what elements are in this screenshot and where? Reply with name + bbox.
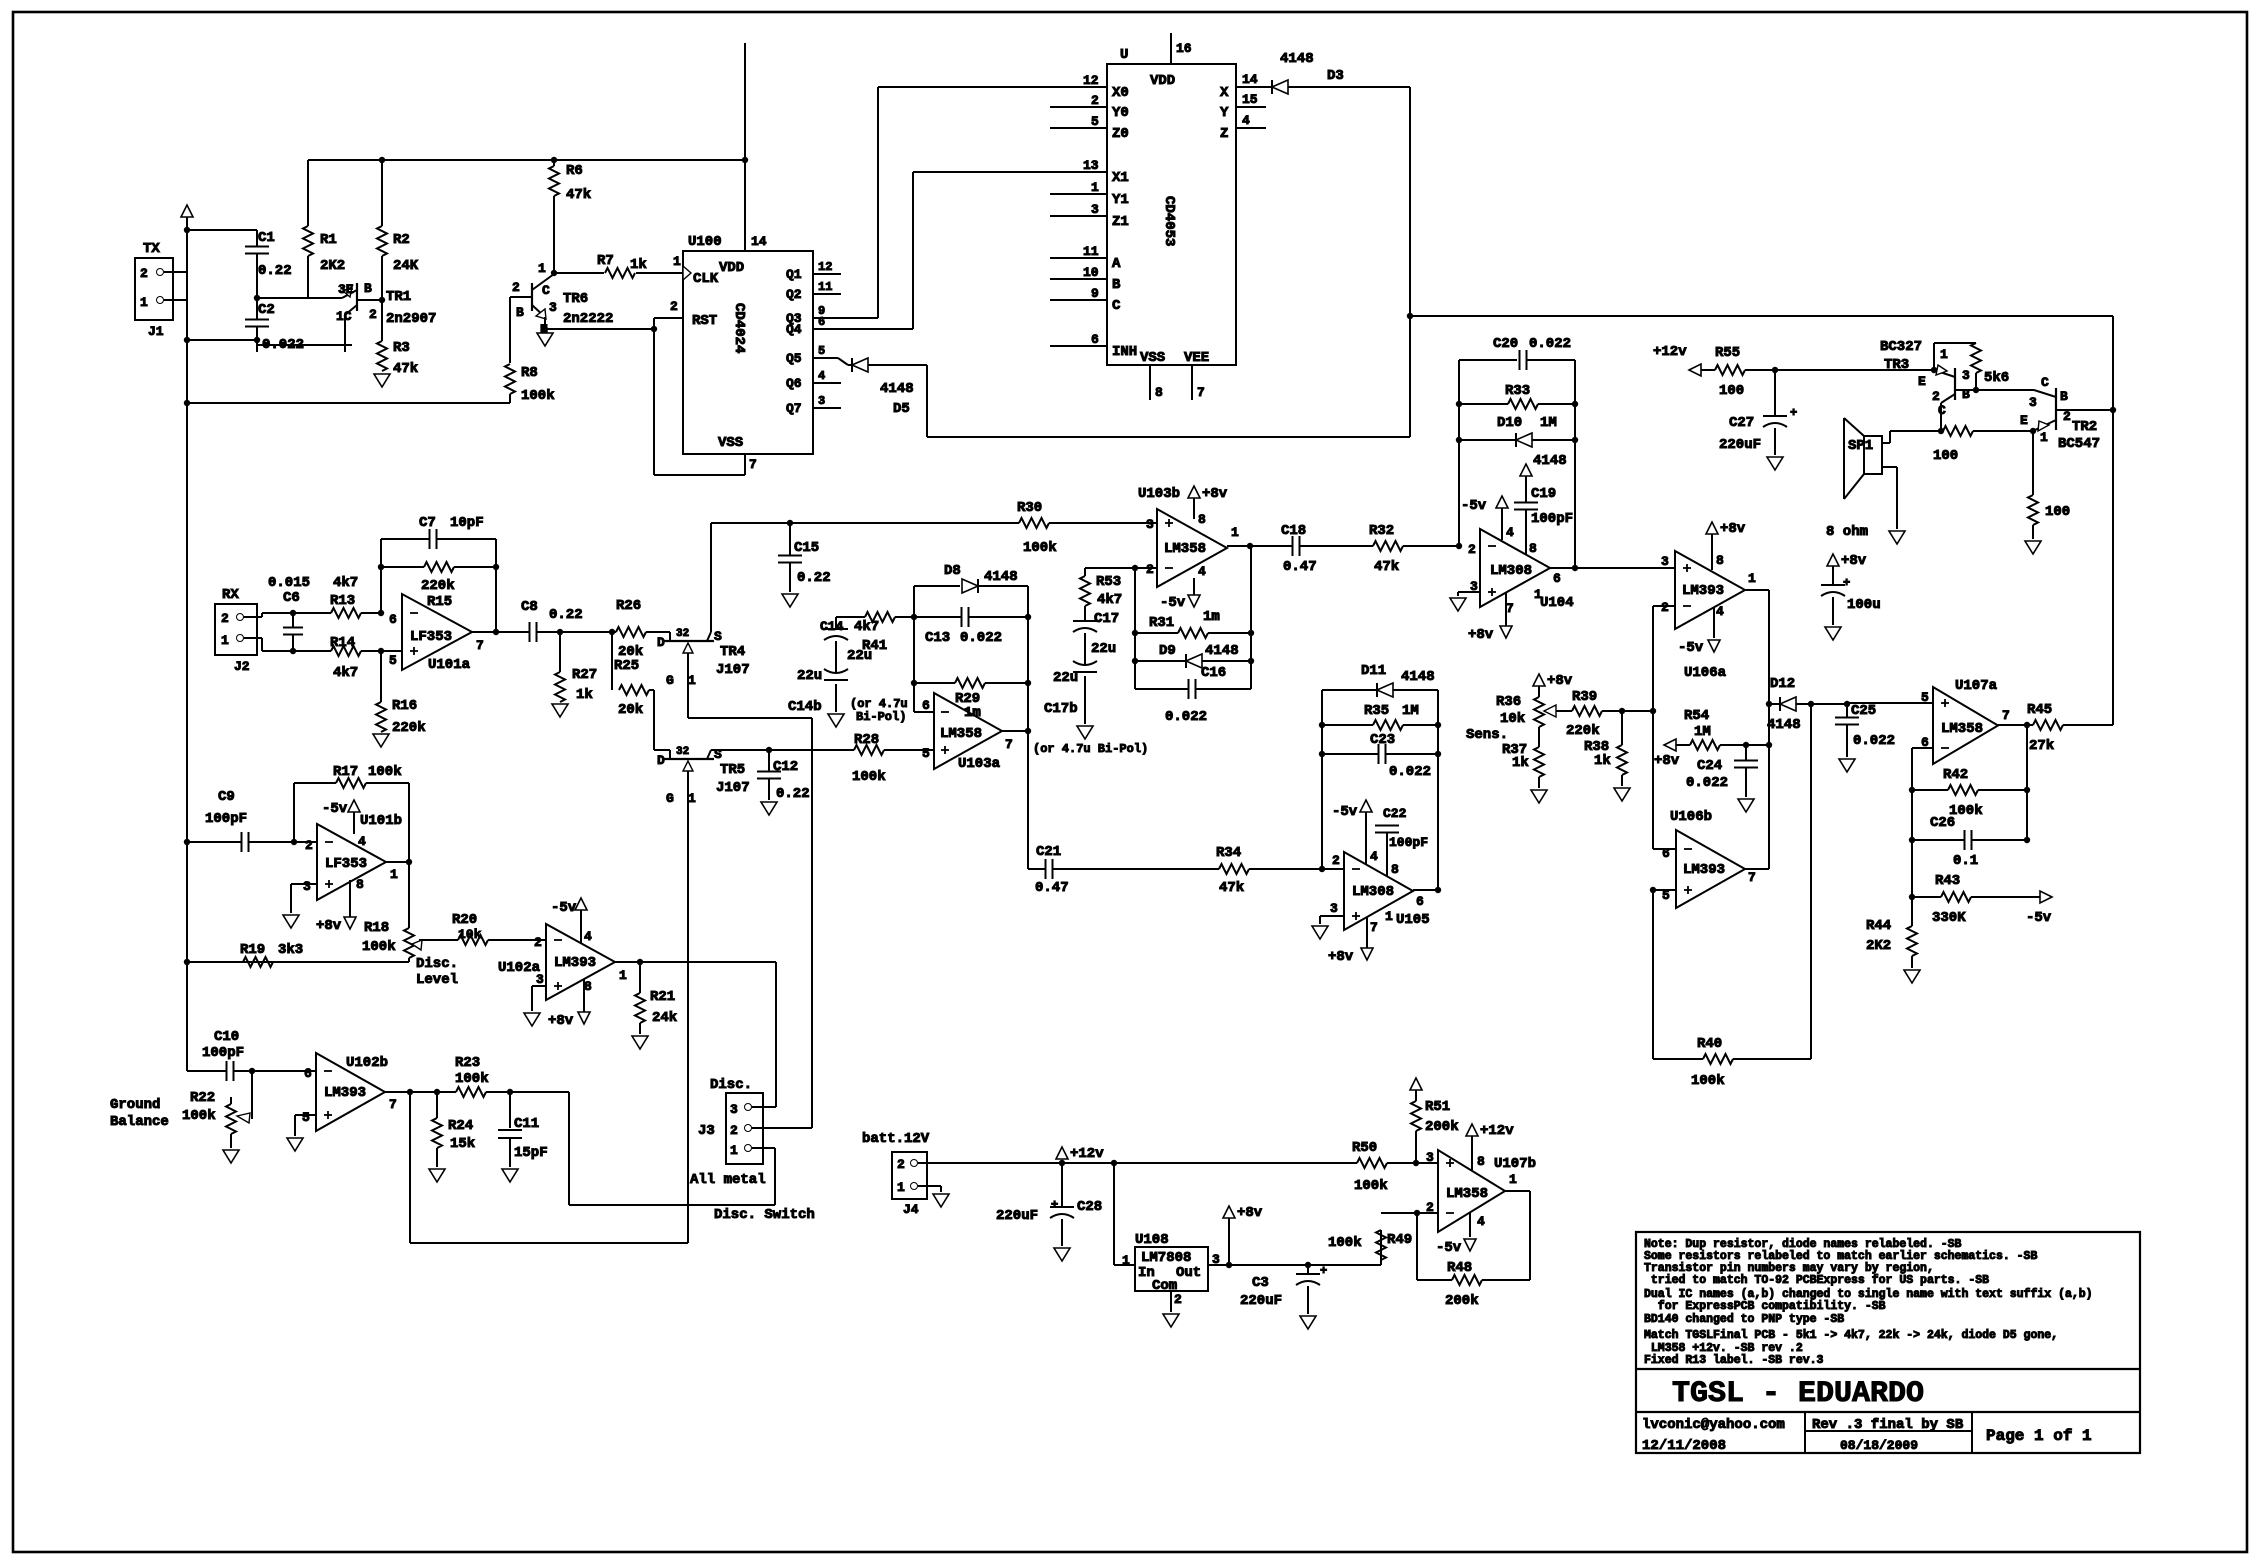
svg-text:3: 3 — [818, 394, 825, 408]
svg-text:1M: 1M — [1402, 703, 1419, 719]
svg-text:R55: R55 — [1715, 345, 1740, 361]
svg-text:4: 4 — [584, 929, 592, 944]
svg-text:Sens.: Sens. — [1466, 727, 1508, 743]
svg-text:R26: R26 — [616, 598, 641, 614]
svg-text:1: 1 — [688, 791, 696, 806]
svg-text:+: + — [1790, 406, 1797, 420]
svg-text:1: 1 — [1748, 571, 1756, 586]
svg-text:200k: 200k — [1445, 1293, 1479, 1309]
svg-text:2: 2 — [1661, 600, 1669, 615]
svg-text:CLK: CLK — [693, 271, 719, 287]
svg-text:20k: 20k — [618, 702, 643, 718]
svg-text:2: 2 — [1468, 542, 1476, 557]
svg-text:5k6: 5k6 — [1984, 370, 2009, 386]
svg-text:J2: J2 — [234, 659, 250, 674]
svg-text:C12: C12 — [773, 759, 798, 775]
svg-text:+12v: +12v — [1480, 1123, 1514, 1139]
svg-text:1: 1 — [1231, 525, 1239, 540]
svg-text:100k: 100k — [1023, 540, 1057, 556]
svg-text:+8v: +8v — [1547, 673, 1573, 689]
svg-text:11: 11 — [818, 280, 832, 294]
svg-text:8: 8 — [1155, 385, 1163, 400]
svg-text:27k: 27k — [2029, 738, 2054, 754]
svg-text:Page 1 of 1: Page 1 of 1 — [1986, 1427, 2092, 1445]
svg-text:1: 1 — [688, 673, 696, 688]
svg-text:3E: 3E — [338, 282, 354, 297]
svg-text:47k: 47k — [1374, 559, 1399, 575]
svg-text:0.022: 0.022 — [1165, 709, 1207, 725]
svg-text:4148: 4148 — [1767, 717, 1801, 733]
svg-text:R19: R19 — [240, 942, 265, 958]
svg-text:C19: C19 — [1531, 486, 1556, 502]
svg-text:8: 8 — [584, 979, 592, 994]
svg-text:LM393: LM393 — [1683, 862, 1725, 878]
svg-text:C22: C22 — [1383, 806, 1407, 821]
svg-text:LM358: LM358 — [1164, 541, 1206, 557]
svg-text:LM393: LM393 — [1682, 583, 1724, 599]
svg-text:SP1: SP1 — [1848, 438, 1873, 454]
svg-text:+8v: +8v — [316, 918, 342, 934]
svg-text:4: 4 — [358, 834, 366, 849]
svg-text:U101a: U101a — [428, 657, 471, 673]
svg-text:32: 32 — [676, 746, 689, 758]
svg-text:Balance: Balance — [110, 1114, 169, 1130]
svg-text:J4: J4 — [903, 1202, 919, 1217]
svg-text:lvconic@yahoo.com: lvconic@yahoo.com — [1642, 1417, 1785, 1433]
svg-text:1: 1 — [1385, 909, 1393, 924]
svg-text:+8v: +8v — [1237, 1205, 1263, 1221]
svg-text:Disc.: Disc. — [416, 956, 458, 972]
svg-text:-5v: -5v — [1678, 640, 1704, 656]
svg-text:15: 15 — [1242, 92, 1258, 107]
svg-text:100k: 100k — [1328, 1235, 1362, 1251]
svg-text:Q5: Q5 — [786, 351, 802, 366]
svg-text:0.47: 0.47 — [1035, 880, 1069, 896]
svg-text:220k: 220k — [1566, 723, 1600, 739]
svg-text:1: 1 — [2040, 430, 2048, 445]
svg-text:1: 1 — [1091, 180, 1099, 195]
svg-text:0.22: 0.22 — [258, 263, 292, 279]
svg-text:C14b: C14b — [788, 699, 822, 715]
svg-text:+8v: +8v — [1720, 521, 1746, 537]
svg-text:C: C — [2041, 375, 2049, 390]
svg-text:100k: 100k — [362, 939, 396, 955]
svg-text:D: D — [657, 753, 665, 768]
svg-text:4148: 4148 — [880, 381, 914, 397]
svg-text:2: 2 — [670, 299, 678, 314]
svg-text:12: 12 — [1083, 73, 1099, 88]
svg-text:1: 1 — [538, 261, 546, 276]
svg-text:INH: INH — [1112, 344, 1137, 360]
svg-text:Q4: Q4 — [786, 322, 802, 337]
svg-text:LM308: LM308 — [1490, 563, 1532, 579]
svg-text:3: 3 — [1962, 368, 1970, 383]
svg-text:1k: 1k — [1512, 755, 1529, 771]
svg-text:C: C — [1112, 298, 1121, 314]
svg-text:R28: R28 — [854, 732, 879, 748]
svg-text:C7: C7 — [419, 515, 436, 531]
svg-text:1k: 1k — [630, 257, 647, 273]
svg-text:Q2: Q2 — [786, 287, 802, 302]
svg-text:C14: C14 — [820, 619, 844, 634]
svg-text:7: 7 — [389, 1097, 397, 1112]
svg-text:D3: D3 — [1327, 68, 1344, 84]
svg-text:100: 100 — [2045, 504, 2070, 520]
svg-text:R23: R23 — [455, 1055, 480, 1071]
svg-text:Z0: Z0 — [1112, 126, 1129, 142]
svg-text:2: 2 — [2063, 409, 2071, 424]
svg-text:1C: 1C — [336, 309, 352, 324]
svg-text:Y1: Y1 — [1112, 192, 1129, 208]
svg-text:U: U — [1120, 47, 1128, 63]
svg-text:R53: R53 — [1096, 574, 1121, 590]
svg-text:+: + — [1843, 576, 1850, 590]
svg-text:4: 4 — [1506, 525, 1514, 540]
svg-text:1: 1 — [1122, 1253, 1130, 1268]
svg-text:+8v: +8v — [548, 1013, 574, 1029]
svg-text:-5v: -5v — [1332, 804, 1358, 820]
svg-text:6: 6 — [1553, 571, 1561, 586]
svg-text:100pF: 100pF — [205, 811, 247, 827]
svg-text:J3: J3 — [698, 1123, 715, 1139]
svg-text:U107a: U107a — [1955, 678, 1998, 694]
svg-text:U101b: U101b — [360, 813, 402, 829]
svg-text:R22: R22 — [190, 1090, 215, 1106]
svg-text:U107b: U107b — [1494, 1156, 1536, 1172]
svg-text:U106b: U106b — [1670, 809, 1712, 825]
svg-text:0.22: 0.22 — [549, 607, 583, 623]
svg-text:1m: 1m — [964, 705, 981, 721]
svg-text:7: 7 — [1197, 385, 1205, 400]
svg-text:220uF: 220uF — [1719, 437, 1761, 453]
svg-text:U102a: U102a — [498, 960, 541, 976]
svg-text:0.022: 0.022 — [1389, 764, 1431, 780]
svg-text:LM393: LM393 — [324, 1085, 366, 1101]
svg-text:C11: C11 — [514, 1116, 539, 1132]
svg-text:2: 2 — [897, 1157, 905, 1172]
svg-text:3: 3 — [1426, 1150, 1434, 1165]
svg-text:2: 2 — [1091, 93, 1099, 108]
svg-text:C25: C25 — [1851, 703, 1876, 719]
svg-text:R31: R31 — [1149, 615, 1174, 631]
svg-text:100k: 100k — [1691, 1073, 1725, 1089]
svg-text:J107: J107 — [716, 780, 750, 796]
svg-text:4: 4 — [1370, 849, 1378, 864]
svg-text:4148: 4148 — [1533, 453, 1567, 469]
svg-text:22u: 22u — [797, 668, 822, 684]
svg-text:R15: R15 — [427, 594, 452, 610]
svg-text:C9: C9 — [218, 789, 235, 805]
svg-text:8 ohm: 8 ohm — [1826, 524, 1868, 540]
svg-text:Out: Out — [1176, 1265, 1201, 1281]
svg-text:0.1: 0.1 — [1953, 853, 1978, 869]
svg-text:R34: R34 — [1216, 845, 1241, 861]
svg-text:0.22: 0.22 — [797, 570, 831, 586]
svg-text:7: 7 — [1370, 920, 1378, 935]
svg-text:1: 1 — [1509, 1172, 1517, 1187]
svg-text:LM358: LM358 — [1941, 721, 1983, 737]
svg-text:VDD: VDD — [719, 260, 744, 276]
svg-text:CD4053: CD4053 — [1161, 196, 1177, 246]
svg-text:Match TGSLFinal PCB - 5k1 -> 4: Match TGSLFinal PCB - 5k1 -> 4k7, 22k ->… — [1644, 1329, 2058, 1342]
svg-text:5: 5 — [922, 746, 930, 761]
svg-text:VDD: VDD — [1150, 73, 1175, 89]
svg-text:(or 4.7u: (or 4.7u — [850, 697, 908, 711]
svg-text:7: 7 — [2002, 708, 2010, 723]
svg-text:All metal: All metal — [690, 1172, 766, 1188]
svg-text:TR4: TR4 — [720, 644, 745, 660]
svg-text:R20: R20 — [452, 912, 477, 928]
svg-text:R49: R49 — [1387, 1232, 1412, 1248]
svg-text:B: B — [1112, 277, 1121, 293]
svg-text:-5v: -5v — [2026, 910, 2052, 926]
svg-text:R6: R6 — [566, 163, 583, 179]
svg-text:U105: U105 — [1396, 912, 1430, 928]
svg-text:08/18/2009: 08/18/2009 — [1840, 1438, 1918, 1453]
svg-text:1: 1 — [140, 295, 148, 310]
svg-text:C8: C8 — [521, 599, 538, 615]
svg-text:-5v: -5v — [1461, 498, 1487, 514]
svg-text:J107: J107 — [716, 662, 750, 678]
svg-text:U100: U100 — [688, 234, 722, 250]
svg-text:B: B — [2060, 389, 2068, 404]
svg-text:C13: C13 — [925, 630, 950, 646]
svg-text:B: B — [364, 281, 372, 296]
svg-text:14: 14 — [751, 234, 767, 249]
svg-text:TR3: TR3 — [1884, 357, 1909, 373]
svg-text:RST: RST — [692, 313, 717, 329]
svg-text:Y: Y — [1220, 105, 1229, 121]
svg-text:LM358: LM358 — [1446, 1186, 1488, 1202]
svg-text:-5v: -5v — [1160, 595, 1186, 611]
svg-text:1: 1 — [619, 968, 627, 983]
svg-text:1m: 1m — [1203, 609, 1220, 625]
svg-text:TR1: TR1 — [386, 289, 411, 305]
svg-text:4148: 4148 — [1280, 51, 1314, 67]
svg-text:7: 7 — [1506, 601, 1514, 616]
svg-text:5: 5 — [818, 344, 825, 358]
svg-text:100pF: 100pF — [202, 1045, 244, 1061]
svg-text:100pF: 100pF — [1531, 511, 1573, 527]
svg-text:4: 4 — [1477, 1214, 1485, 1229]
svg-text:C15: C15 — [794, 540, 819, 556]
svg-text:2: 2 — [305, 838, 313, 853]
svg-text:S: S — [714, 747, 722, 762]
svg-text:24k: 24k — [652, 1010, 677, 1026]
svg-text:D: D — [657, 635, 665, 650]
svg-text:330K: 330K — [1932, 910, 1966, 926]
svg-text:220uF: 220uF — [996, 1208, 1038, 1224]
svg-text:1: 1 — [1940, 347, 1948, 362]
svg-text:R17: R17 — [333, 764, 358, 780]
svg-text:LF353: LF353 — [410, 629, 452, 645]
svg-text:VEE: VEE — [1184, 350, 1209, 366]
svg-text:1: 1 — [730, 1143, 738, 1158]
svg-text:U103b: U103b — [1138, 486, 1180, 502]
svg-text:Disc. Switch: Disc. Switch — [714, 1207, 815, 1223]
svg-text:R51: R51 — [1425, 1099, 1450, 1115]
svg-text:6: 6 — [304, 1066, 312, 1081]
svg-text:LM308: LM308 — [1352, 884, 1394, 900]
svg-text:U102b: U102b — [346, 1055, 388, 1071]
svg-text:C1: C1 — [258, 230, 275, 246]
svg-text:R45: R45 — [2027, 702, 2052, 718]
svg-text:C28: C28 — [1077, 1199, 1102, 1215]
svg-text:R54: R54 — [1684, 708, 1709, 724]
svg-text:5: 5 — [1091, 114, 1099, 129]
svg-text:Disc.: Disc. — [710, 1077, 752, 1093]
svg-text:R40: R40 — [1697, 1036, 1722, 1052]
svg-text:22u: 22u — [1091, 641, 1116, 657]
svg-text:R30: R30 — [1017, 500, 1042, 516]
svg-text:4k7: 4k7 — [854, 619, 879, 635]
svg-text:8: 8 — [356, 877, 364, 892]
svg-text:24K: 24K — [393, 258, 419, 274]
svg-text:G: G — [666, 673, 674, 688]
svg-text:C20: C20 — [1493, 336, 1518, 352]
svg-text:3: 3 — [1330, 901, 1338, 916]
svg-text:14: 14 — [1242, 72, 1258, 87]
svg-text:R18: R18 — [364, 920, 389, 936]
svg-text:R39: R39 — [1572, 689, 1597, 705]
svg-text:100k: 100k — [182, 1108, 216, 1124]
svg-text:TX: TX — [143, 241, 160, 257]
svg-text:BD140 changed to PNP type -S: BD140 changed to PNP type -SB — [1644, 1313, 1844, 1326]
svg-text:3: 3 — [1146, 517, 1154, 532]
svg-text:3: 3 — [1661, 554, 1669, 569]
svg-text:4k7: 4k7 — [1097, 592, 1122, 608]
svg-text:32: 32 — [676, 628, 689, 640]
svg-text:11: 11 — [1083, 244, 1099, 259]
svg-text:R32: R32 — [1369, 523, 1394, 539]
svg-text:1: 1 — [221, 633, 229, 648]
svg-text:0.022: 0.022 — [1686, 775, 1728, 791]
svg-text:2: 2 — [534, 935, 542, 950]
svg-text:0.022: 0.022 — [1529, 336, 1571, 352]
svg-text:100: 100 — [1719, 383, 1744, 399]
svg-text:LM7808: LM7808 — [1141, 1250, 1191, 1266]
svg-text:2: 2 — [1932, 389, 1940, 404]
svg-text:C16: C16 — [1201, 665, 1226, 681]
svg-text:100k: 100k — [852, 769, 886, 785]
svg-text:8: 8 — [1198, 512, 1206, 527]
svg-text:+8v: +8v — [1841, 553, 1867, 569]
svg-text:2: 2 — [512, 280, 520, 295]
svg-text:0.022: 0.022 — [960, 630, 1002, 646]
svg-text:D5: D5 — [893, 401, 910, 417]
svg-text:D11: D11 — [1361, 663, 1386, 679]
svg-text:2: 2 — [369, 307, 377, 322]
svg-text:R1: R1 — [320, 232, 337, 248]
svg-text:Bi-Pol): Bi-Pol) — [856, 710, 906, 724]
svg-text:3: 3 — [1091, 202, 1099, 217]
svg-text:12: 12 — [818, 260, 832, 274]
svg-text:+12v: +12v — [1070, 1146, 1104, 1162]
svg-text:2: 2 — [1174, 1292, 1182, 1307]
svg-text:R24: R24 — [448, 1118, 473, 1134]
svg-text:R48: R48 — [1447, 1260, 1472, 1276]
svg-text:6: 6 — [389, 612, 397, 627]
svg-text:C24: C24 — [1697, 758, 1722, 774]
svg-text:D12: D12 — [1770, 676, 1795, 692]
svg-text:4148: 4148 — [984, 569, 1018, 585]
svg-text:47k: 47k — [566, 187, 591, 203]
svg-text:0.47: 0.47 — [1283, 559, 1317, 575]
svg-text:200k: 200k — [1425, 1119, 1459, 1135]
svg-text:2K2: 2K2 — [320, 258, 345, 274]
svg-text:15pF: 15pF — [514, 1145, 548, 1161]
svg-text:4148: 4148 — [1401, 669, 1435, 685]
svg-text:+: + — [1320, 1264, 1327, 1278]
svg-text:CD4024: CD4024 — [731, 303, 747, 353]
svg-text:R13: R13 — [330, 593, 355, 609]
svg-text:16: 16 — [1176, 41, 1192, 56]
svg-text:5: 5 — [389, 653, 397, 668]
svg-text:4k7: 4k7 — [333, 665, 358, 681]
svg-text:R44: R44 — [1866, 918, 1891, 934]
svg-text:7: 7 — [1748, 870, 1756, 885]
svg-text:R21: R21 — [650, 989, 675, 1005]
svg-text:4k7: 4k7 — [333, 575, 358, 591]
svg-text:3: 3 — [2029, 395, 2037, 410]
svg-text:(or 4.7u Bi-Pol): (or 4.7u Bi-Pol) — [1033, 742, 1148, 756]
svg-text:S: S — [714, 629, 722, 644]
svg-text:U103a: U103a — [958, 756, 1001, 772]
svg-text:D8: D8 — [944, 563, 961, 579]
svg-text:R25: R25 — [614, 658, 639, 674]
svg-text:7: 7 — [476, 638, 484, 653]
svg-text:8: 8 — [1716, 553, 1724, 568]
svg-text:D9: D9 — [1159, 643, 1176, 659]
svg-text:10k: 10k — [1500, 711, 1525, 727]
svg-text:-5v: -5v — [551, 900, 577, 916]
svg-text:TR2: TR2 — [2072, 419, 2097, 435]
svg-text:R8: R8 — [521, 365, 538, 381]
svg-text:A: A — [1112, 256, 1121, 272]
svg-text:Z: Z — [1220, 126, 1228, 142]
svg-text:5: 5 — [302, 1110, 310, 1125]
svg-text:-5v: -5v — [322, 801, 348, 817]
svg-text:X0: X0 — [1112, 85, 1129, 101]
svg-text:220uF: 220uF — [1240, 1293, 1282, 1309]
svg-text:B: B — [1962, 387, 1970, 402]
svg-text:B: B — [516, 305, 524, 320]
svg-text:C17b: C17b — [1044, 701, 1078, 717]
svg-text:for ExpressPCB compatibility.: for ExpressPCB compatibility. -SB — [1644, 1300, 1886, 1313]
svg-text:220k: 220k — [421, 578, 455, 594]
svg-text:0.015: 0.015 — [268, 575, 310, 591]
svg-text:R36: R36 — [1496, 694, 1521, 710]
svg-text:1k: 1k — [1594, 753, 1611, 769]
svg-text:7: 7 — [749, 457, 757, 472]
svg-text:4: 4 — [818, 369, 825, 383]
svg-text:1M: 1M — [1540, 415, 1557, 431]
svg-text:2: 2 — [1146, 562, 1154, 577]
svg-text:2: 2 — [1426, 1200, 1434, 1215]
svg-text:8: 8 — [1529, 541, 1537, 556]
svg-text:TGSL - EDUARDO: TGSL - EDUARDO — [1672, 1377, 1924, 1411]
svg-text:1: 1 — [673, 254, 681, 269]
svg-text:Z1: Z1 — [1112, 214, 1129, 230]
svg-text:D10: D10 — [1497, 415, 1522, 431]
svg-text:3: 3 — [549, 300, 557, 315]
svg-text:R50: R50 — [1352, 1140, 1377, 1156]
svg-text:R16: R16 — [392, 698, 417, 714]
svg-text:2K2: 2K2 — [1866, 938, 1891, 954]
svg-text:E: E — [2020, 413, 2028, 428]
svg-text:Q7: Q7 — [786, 401, 802, 416]
svg-text:100k: 100k — [521, 388, 555, 404]
